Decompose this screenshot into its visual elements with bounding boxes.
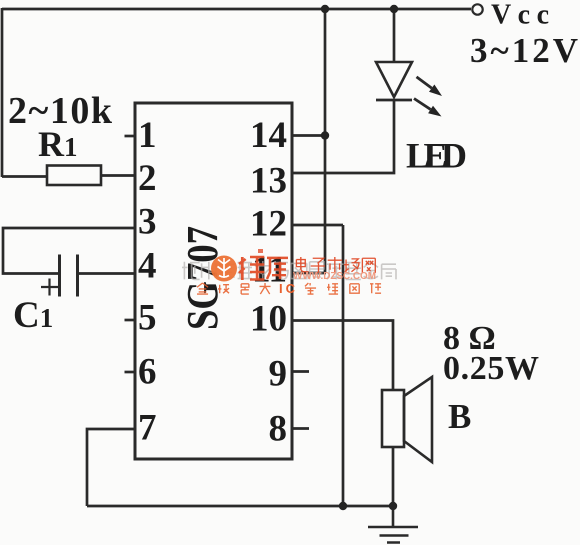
wire pin 13 to LED cathode	[292, 100, 394, 173]
wire C1 right plate to pin 4	[79, 272, 136, 275]
junction top rail / node A	[321, 5, 329, 13]
svg-text:7: 7	[138, 407, 157, 448]
wire LED anode from top rail	[393, 9, 396, 62]
svg-text:5: 5	[138, 297, 157, 338]
svg-text:13: 13	[250, 160, 287, 201]
LED cathode bar	[376, 99, 412, 102]
wire pin 3 to C1 left plate	[3, 228, 135, 274]
pin 9 stub	[292, 370, 309, 373]
watermark small orange CJK slogan	[197, 283, 381, 294]
watermark gray company text row	[182, 261, 396, 280]
svg-text:9: 9	[269, 353, 288, 394]
svg-text:0.25W: 0.25W	[443, 350, 539, 387]
LED arrowhead 1	[429, 85, 442, 97]
wire node B vertical (pin 12 to bottom rail)	[342, 225, 345, 506]
svg-text:2: 2	[138, 158, 157, 199]
wire pin 11 stub	[292, 272, 326, 275]
LED arrowhead 2	[428, 106, 441, 117]
wire top Vcc rail	[2, 8, 471, 11]
watermark	[182, 249, 396, 296]
junction pin 14 / node A	[321, 131, 329, 139]
wire pin 10 to speaker	[292, 321, 393, 391]
speaker B body	[382, 390, 404, 447]
wire R1 to pin 2	[101, 174, 135, 177]
wire pin 14 stub	[292, 134, 325, 137]
resistor R1	[47, 166, 101, 186]
wire node A vertical (top rail to pin 11)	[324, 9, 327, 273]
svg-text:1: 1	[138, 115, 157, 156]
capacitor C1	[60, 255, 78, 297]
watermark TM mark	[258, 249, 263, 253]
terminal Vcc	[472, 4, 482, 14]
svg-text:14: 14	[250, 115, 287, 156]
LED D1 triangle	[376, 62, 412, 97]
speaker B cone	[404, 377, 432, 462]
wire pin 7 to bottom rail	[87, 429, 135, 506]
svg-text:3: 3	[138, 201, 157, 242]
wire pin 12	[292, 224, 343, 227]
svg-text:6: 6	[138, 351, 157, 392]
watermark logo circle	[211, 256, 237, 282]
junction top rail / LED	[390, 5, 398, 13]
svg-text:LED: LED	[406, 136, 467, 176]
watermark big red CJK text	[239, 257, 288, 280]
svg-text:Vcc: Vcc	[491, 0, 549, 31]
svg-text:12: 12	[250, 203, 287, 244]
svg-text:8: 8	[269, 408, 288, 449]
LED light arrow 2	[414, 99, 431, 110]
ground symbol	[368, 506, 418, 543]
wire R1 left lead	[2, 175, 47, 178]
LED light arrow 1	[417, 77, 432, 88]
svg-text:C1: C1	[13, 295, 53, 336]
pin 1 stub	[125, 135, 136, 138]
pin 5 stub	[125, 319, 136, 322]
svg-text:3~12V: 3~12V	[470, 31, 578, 70]
svg-text:4: 4	[138, 245, 157, 286]
wire bottom rail	[87, 505, 393, 508]
junction node B / bottom rail	[339, 502, 347, 510]
IC U1 SG707 body	[135, 103, 292, 459]
pin 6 stub	[125, 371, 136, 374]
svg-text:WWW.DZSC.COM: WWW.DZSC.COM	[293, 271, 376, 282]
junction speaker / ground	[389, 502, 397, 510]
svg-text:IC: IC	[279, 281, 298, 296]
wire left vertical from top rail to R1	[1, 8, 4, 177]
wire speaker to ground	[392, 447, 395, 506]
plus polarity mark	[41, 279, 58, 296]
pin 8 stub	[292, 427, 309, 430]
svg-text:B: B	[448, 397, 471, 436]
svg-text:10: 10	[250, 298, 287, 339]
